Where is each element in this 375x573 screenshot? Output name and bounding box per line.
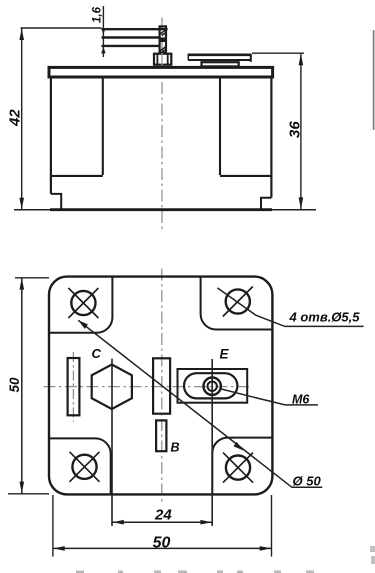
mounting hole top-right [226, 289, 250, 313]
centerline vertical side view [161, 18, 163, 232]
hex boss C [92, 365, 132, 410]
hole cross bottom-right [223, 453, 253, 483]
side recess right vertical [219, 79, 221, 176]
dimension 24 arrow left [112, 520, 124, 525]
diameter 50 arrow lower [234, 442, 244, 451]
svg-text:50: 50 [153, 535, 171, 552]
svg-text:E: E [220, 347, 230, 362]
dimension 50 bottom line [53, 547, 272, 549]
dimension 36 line [300, 53, 302, 209]
dimension 1,6 arrow down [101, 28, 105, 34]
svg-text:М6: М6 [292, 393, 310, 407]
dimension 50 left ext bottom [8, 493, 49, 495]
dimension 42 line [21, 28, 23, 210]
bottom view outline [49, 277, 272, 495]
dimension 50 bottom ext left [52, 495, 54, 557]
central slot [153, 358, 170, 413]
svg-text:36: 36 [287, 121, 304, 138]
case bottom step right [261, 198, 271, 209]
main terminal tab top edge [188, 53, 252, 56]
nut face line left [156, 54, 158, 64]
cropped right figure edge [373, 30, 375, 130]
terminal strap line 2 [102, 36, 159, 38]
hole cross top-right [223, 287, 253, 317]
corner pocket bottom-left [49, 438, 111, 494]
svg-text:24: 24 [154, 507, 172, 524]
terminal strap line 1 [102, 28, 168, 30]
corner pocket top-left [49, 277, 112, 333]
svg-text:42: 42 [7, 109, 24, 127]
dimension 42 arrow top [19, 28, 24, 40]
case body left side [50, 78, 52, 194]
centerline slot 1 [72, 352, 74, 422]
dimension 1,6 arrow up [101, 47, 105, 54]
control terminal bolt [160, 26, 166, 52]
nut centerline [161, 53, 163, 66]
dimension 50 left arrow top [20, 278, 25, 290]
svg-text:4 отв.Ø5,5: 4 отв.Ø5,5 [289, 310, 361, 325]
cropped caption fragments [76, 571, 314, 573]
case bottom step left [51, 194, 61, 209]
centerline vertical bottom view [161, 269, 163, 506]
side recess left bottom [51, 175, 103, 177]
diameter 50 arrow upper [78, 320, 88, 329]
case body right side [270, 78, 272, 198]
nut face line right [167, 54, 169, 64]
dimension 24 arrow right [200, 520, 212, 525]
terminal strap line 3 [102, 45, 159, 47]
corner pocket bottom-right [212, 438, 272, 495]
svg-text:B: B [171, 441, 180, 455]
terminal E inner circle [208, 382, 217, 391]
svg-text:50: 50 [7, 377, 22, 393]
case flange [49, 67, 273, 77]
dimension 50 bottom ext right [271, 495, 273, 557]
mounting hole bottom-right [226, 456, 250, 480]
terminal E outer circle [204, 378, 221, 395]
cropped right margin fragments [370, 546, 375, 564]
dimension 50 bottom arrow right [260, 546, 272, 551]
dimension 42 arrow bottom [19, 198, 24, 210]
hole cross bottom-left [70, 452, 100, 482]
side recess right bottom [220, 175, 271, 177]
extension line 24 left [111, 359, 113, 526]
dimension 36 arrow top [299, 54, 304, 66]
svg-text:Ø 50: Ø 50 [293, 474, 322, 489]
corner pocket top-right [201, 277, 273, 330]
main terminal tab bottom edge [188, 59, 250, 61]
dimension 1,6 extension line [102, 6, 104, 57]
hex standoff nut [154, 54, 171, 65]
leader 4 holes [217, 288, 363, 327]
diameter 50 diagonal line [78, 320, 322, 487]
bolt solid segment [159, 37, 166, 42]
svg-text:1,6: 1,6 [92, 6, 104, 23]
dimension 50 bottom arrow left [53, 546, 64, 551]
case bottom line [50, 208, 272, 211]
mounting hole bottom-left [72, 455, 96, 479]
centerline horizontal bottom view [44, 386, 250, 388]
dimension 50 left line [21, 278, 23, 494]
bolt hatch lower [160, 47, 166, 53]
dimension 36 extension top [252, 52, 304, 54]
bottom extension line left [14, 209, 50, 211]
leader M6 [220, 389, 318, 405]
slot terminal 1 [68, 358, 80, 415]
slot B [156, 420, 166, 451]
dimension 42 extension top [21, 27, 102, 29]
bottom extension line right [272, 209, 316, 211]
dimension 50 left ext top [15, 277, 49, 279]
dimension 50 left arrow bottom [20, 482, 25, 494]
dimension 24 line [112, 521, 212, 523]
extension line 24 right [211, 359, 213, 526]
main terminal tab right edge [250, 54, 252, 62]
mounting hole top-left [71, 291, 95, 315]
terminal E obround [184, 373, 237, 398]
dimension 36 arrow bottom [299, 197, 304, 209]
svg-text:C: C [92, 346, 102, 361]
side recess left vertical [102, 79, 104, 176]
terminal clamp plate [202, 62, 239, 66]
bolt hatch upper [160, 30, 166, 36]
terminal E plate [178, 369, 248, 403]
main terminal tab left edge [187, 54, 189, 60]
hole cross top-left [68, 288, 98, 318]
